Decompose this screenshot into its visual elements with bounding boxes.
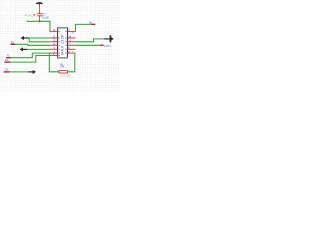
svg-text:0207/10W: 0207/10W (60, 75, 72, 78)
arrow left A1 (21, 36, 29, 40)
svg-text:B+: B+ (89, 21, 93, 25)
svg-text:MAX 232P: MAX 232P (60, 34, 64, 55)
wire C (10, 56, 52, 63)
wire A red end (10, 43, 15, 45)
wire B red end (6, 57, 11, 59)
arrow left A2 (20, 47, 28, 51)
wire resistor right up to pin 6 (68, 53, 75, 72)
arrow right A4 (104, 35, 113, 42)
pin stubs right (68, 32, 76, 53)
svg-text:47uF/25V: 47uF/25V (24, 13, 36, 17)
resistor R1 (59, 71, 68, 73)
pin name marks inside box (58, 31, 60, 56)
junction dot (38, 20, 40, 22)
svg-text:V-: V- (72, 51, 74, 53)
wire OUT1 (76, 44, 101, 46)
wire red stem VCC (39, 5, 41, 13)
wire T1OUT staircase (76, 39, 107, 42)
wire to pin 9 (27, 48, 50, 50)
wire D red end (4, 71, 10, 73)
op-amp IC1 MAX232 (57, 28, 68, 58)
arrow right A3 (28, 70, 36, 74)
wire OUT1 red end (100, 44, 103, 46)
wire VCC rail (27, 21, 51, 31)
wire D (10, 71, 30, 73)
wire C red end (4, 61, 10, 63)
pin stubs left (50, 32, 58, 56)
wire branch down (29, 38, 49, 42)
wire red stem lower (39, 16, 41, 21)
wire V+ red end (91, 23, 95, 25)
wire B (11, 53, 50, 58)
svg-text:0.1uF: 0.1uF (42, 15, 49, 19)
pin numbers right (68, 29, 71, 53)
power +5V symbol (36, 2, 43, 6)
wire A (15, 44, 49, 45)
wire to pin 11 (28, 37, 49, 39)
capacitor C5 (33, 14, 42, 16)
pin numbers left (53, 29, 56, 56)
wire V+ top right (76, 24, 94, 31)
svg-text:OUT1: OUT1 (104, 44, 111, 48)
svg-text:D2: D2 (5, 67, 9, 71)
wire pin1 down to resistor (49, 53, 59, 72)
